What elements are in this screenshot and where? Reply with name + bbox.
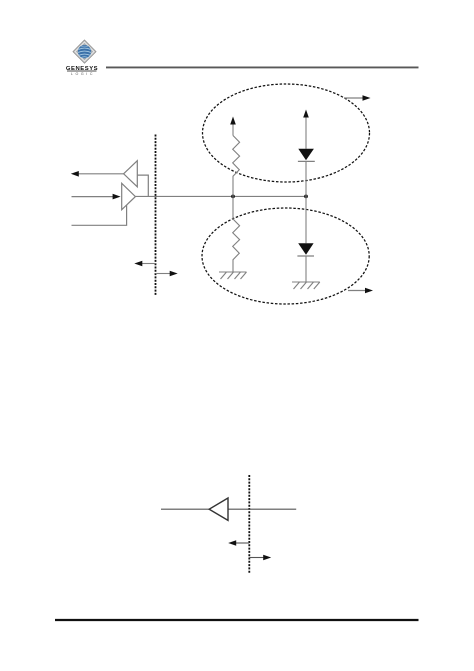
svg-text:LOGIC: LOGIC [71,72,95,76]
